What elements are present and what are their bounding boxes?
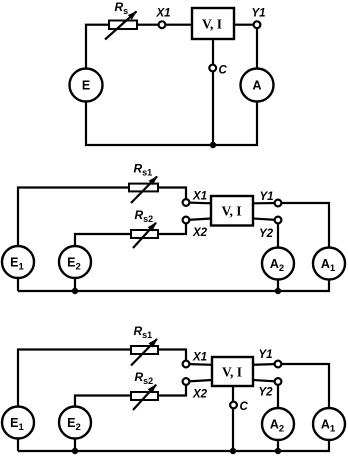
svg-text:Rs1: Rs1 [134,324,153,340]
ammeter A [241,69,274,102]
svg-text:X1: X1 [192,352,207,364]
resistor Rs1 [129,184,158,192]
wire: X2 to box [186,380,212,382]
svg-text:X1: X1 [192,191,207,203]
junction C [230,448,236,454]
wire: box to Y2 [253,219,278,221]
node Y1 [254,21,261,28]
wire: box to Y1 to A1 [253,364,329,408]
wire: bottom rail [18,440,329,451]
junction A2 [275,288,281,294]
node Y2 [275,378,282,385]
node C [209,65,216,72]
wire: E1 branch + rail1 to X1 [18,350,186,452]
svg-text:A: A [252,79,261,93]
source E [70,69,103,102]
op-box U3 "V, I" [212,357,253,386]
ammeter A2 [262,248,294,280]
op-box U2 "V, I" [211,196,253,226]
junction E2 [72,448,78,454]
svg-text:V, I: V, I [222,365,242,380]
wire: X1 to box [186,201,211,204]
svg-text:Rs: Rs [115,0,129,16]
op-box U1 "V, I" [192,8,234,39]
resistor Rs1 [131,346,158,354]
node X2 [183,378,190,385]
junction E2 [72,288,78,294]
node Y2 [275,217,282,224]
svg-text:Y1: Y1 [258,349,272,361]
wire: X1 to box [186,363,212,366]
wire: X2 to box [186,219,211,221]
source E1 [2,246,34,278]
source E2 [59,407,91,439]
svg-text:Rs2: Rs2 [135,208,154,224]
wire: E2 branch + rail2 to X2 [75,386,186,452]
svg-text:X2: X2 [192,227,208,239]
node X1 [159,21,166,28]
wire: Y2 down to A2 and rail [277,382,279,452]
resistor Rs2 [131,392,158,400]
svg-text:C: C [240,401,249,413]
wire: box to Y2 [253,380,278,382]
node X1 [183,361,190,368]
node X2 [183,217,190,224]
wire: E1 branch + rail1 to X1 [18,188,186,292]
svg-text:Y1: Y1 [251,8,265,20]
node X1 [183,199,190,206]
wire: box to Y1 to A1 [253,203,329,248]
node Y1 [275,200,282,207]
node C [230,402,237,409]
wire: bottom rail [18,280,329,292]
svg-text:Y1: Y1 [259,191,273,203]
resistor Rs2 [131,230,158,238]
ammeter A2 [262,408,294,440]
svg-text:Rs2: Rs2 [135,370,154,386]
source E2 [59,246,91,278]
wire: Y2 down to A2 and rail [277,220,279,291]
svg-text:V, I: V, I [202,17,222,32]
wire: box bottom to rail through node C [232,386,234,451]
junction A2 [275,448,281,454]
wire: outer loop (top rail, right vertical, bottom rail, left vertical) [86,25,257,145]
ammeter A1 [313,408,345,440]
svg-text:Y2: Y2 [259,228,274,240]
svg-text:E: E [82,79,90,93]
svg-text:V, I: V, I [221,204,241,219]
resistor Rs [109,21,137,30]
svg-text:C: C [219,65,228,77]
node Y1 [275,361,282,368]
source E1 [2,407,34,439]
svg-text:X1: X1 [155,7,170,19]
wire: V,I box bottom to bottom rail through node C [212,39,214,145]
junction [210,142,216,148]
svg-text:Rs1: Rs1 [134,162,153,178]
ammeter A1 [313,248,345,280]
svg-text:X2: X2 [192,389,208,401]
svg-text:Y2: Y2 [258,387,273,399]
wire: E2 branch + rail2 to X2 [75,224,186,291]
